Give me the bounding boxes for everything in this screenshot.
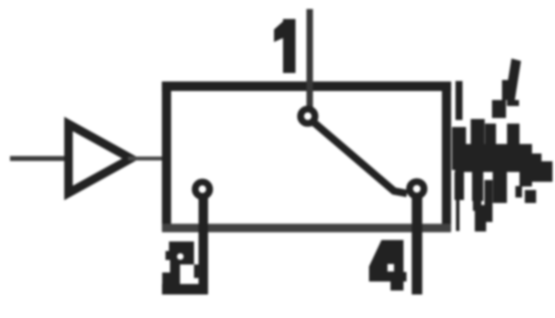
scribble left finger xyxy=(456,81,463,120)
scribble right bar G4 xyxy=(531,154,542,182)
scribble finger F2 xyxy=(471,119,485,149)
wire buffer output to box xyxy=(128,157,163,161)
relay body K1 left edge xyxy=(162,82,171,232)
wire pin 2 xyxy=(199,197,209,294)
buffer U1 (triangle) xyxy=(69,124,132,193)
scribble diagonal nub xyxy=(507,100,519,106)
scribble mark M1 xyxy=(525,190,536,203)
scribble diagonal upper bar xyxy=(505,59,521,103)
wire pin 4 xyxy=(412,196,423,295)
scribble mark small xyxy=(515,186,522,198)
scribble thin tail line xyxy=(456,190,460,231)
scribble far right G5 xyxy=(542,161,553,182)
relay body K1 right edge xyxy=(442,82,451,232)
wire input left xyxy=(10,156,66,161)
scribble below left bar xyxy=(455,172,465,200)
label pin 4 xyxy=(369,240,407,291)
relay body K1 bottom edge (lighter) xyxy=(162,224,451,233)
scribble diagonal foot xyxy=(492,100,506,118)
scribble below G2 xyxy=(493,172,507,203)
scribble below G3 xyxy=(520,172,533,187)
scribble annotation (hand-drawn scratch) xyxy=(452,81,532,172)
terminal circle pin 2 xyxy=(195,182,209,196)
scribble tail stub xyxy=(473,198,482,211)
relay body K1 (box) top edge xyxy=(162,82,451,92)
scribble diagonal bump xyxy=(502,80,510,100)
scribble left blob xyxy=(452,127,466,170)
terminal circle pin 4 xyxy=(410,182,424,196)
switch arm xyxy=(311,120,407,194)
scribble main band xyxy=(455,144,532,172)
label pin 2 xyxy=(162,242,208,295)
scribble below G1 xyxy=(472,172,483,201)
scribble diagonal notch (white) xyxy=(495,93,502,100)
scribble finger F4 xyxy=(507,124,520,149)
wire pin 1 xyxy=(306,9,313,110)
label pin 1 xyxy=(274,19,296,73)
scribble tail wide xyxy=(475,205,486,232)
terminal circle pin 1 xyxy=(301,109,315,123)
scribble descender G1b xyxy=(485,180,493,222)
scribble finger F3 xyxy=(485,124,496,149)
